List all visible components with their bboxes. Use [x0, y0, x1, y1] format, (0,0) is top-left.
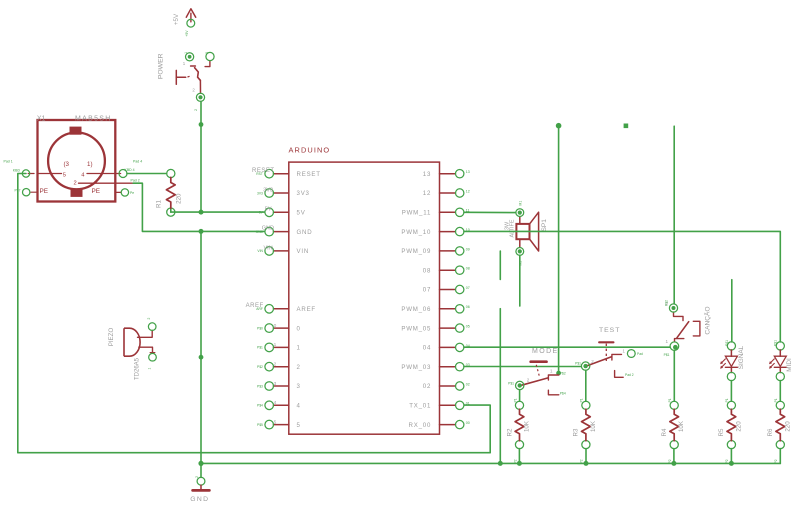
- arduino left pin AREF: [265, 305, 289, 314]
- wire net to MODE contact (vertical x=558): [558, 128, 560, 372]
- arduino left pin 3: [265, 382, 289, 391]
- svg-text:+5V: +5V: [185, 30, 189, 37]
- resistor R1 220: [166, 169, 175, 216]
- svg-text:RX_00: RX_00: [409, 422, 432, 429]
- svg-text:(3: (3: [64, 161, 70, 168]
- resistor R5 220: [727, 401, 736, 449]
- arduino left pin 1: [265, 343, 289, 352]
- wire dangling to SIGNAL LED: [731, 280, 733, 342]
- arduino right pin PWM_10: [440, 227, 464, 235]
- arduino left pin 0: [265, 324, 289, 333]
- svg-text:01: 01: [466, 402, 470, 406]
- svg-text:3: 3: [274, 381, 277, 387]
- svg-text:Pad 1: Pad 1: [4, 159, 13, 163]
- wire PWM_11 to speaker pin1: [464, 211, 516, 213]
- arduino right pin TX_01: [440, 401, 464, 409]
- arduino right pin 02: [440, 382, 464, 390]
- pin 2 of CANCAO: [669, 304, 677, 312]
- svg-text:KBD 4: KBD 4: [125, 168, 135, 172]
- svg-text:13: 13: [466, 170, 470, 174]
- svg-text:220: 220: [176, 193, 183, 204]
- junction x=558 at MODE contact: [556, 371, 561, 376]
- svg-text:GND: GND: [256, 230, 264, 234]
- svg-text:0: 0: [297, 325, 301, 332]
- svg-text:P1: P1: [580, 398, 584, 402]
- svg-text:13: 13: [423, 171, 431, 178]
- svg-text:2: 2: [147, 318, 151, 320]
- svg-text:12: 12: [466, 189, 470, 193]
- pin 1 of SP1: [516, 209, 524, 217]
- svg-text:12: 12: [423, 190, 431, 197]
- switch CANCAO: [674, 312, 700, 342]
- wire R4 bottom to bus: [673, 449, 675, 464]
- svg-text:R4: R4: [661, 428, 668, 436]
- svg-text:P$0: P$0: [257, 326, 263, 330]
- svg-text:RESET: RESET: [297, 171, 321, 178]
- wire PWM_03 to TEST pin: [464, 366, 581, 368]
- svg-text:P$1: P$1: [774, 340, 778, 346]
- svg-text:Pad 2: Pad 2: [131, 179, 140, 183]
- wire speaker pin2 dangling: [519, 255, 521, 306]
- arduino left pin RESET: [265, 169, 289, 178]
- svg-text:2: 2: [74, 181, 77, 187]
- junction GND bus R2: [517, 461, 522, 466]
- arduino left pin 2: [265, 362, 289, 371]
- junction GND net: [199, 355, 204, 360]
- svg-text:2: 2: [195, 476, 199, 478]
- junction GND bus x=500: [498, 461, 503, 466]
- svg-text:1: 1: [665, 339, 668, 344]
- wire PWM_10 to MIDI LED (long): [464, 231, 780, 342]
- svg-text:PWM_03: PWM_03: [401, 364, 431, 371]
- arduino right pin 13: [440, 170, 464, 178]
- junction GND net at power line: [199, 229, 204, 234]
- junction GND bus R5: [729, 461, 734, 466]
- svg-text:3W: 3W: [504, 221, 510, 230]
- wire MODE pin to R2: [519, 390, 521, 402]
- svg-text:10K: 10K: [590, 420, 597, 432]
- wire MIDI pin2 to arduino GND (GND net): [133, 183, 264, 231]
- svg-text:GND: GND: [190, 496, 209, 503]
- svg-text:+5V: +5V: [173, 13, 180, 25]
- wire 04 to CANCAO pin1: [464, 346, 670, 348]
- svg-text:P$4: P$4: [257, 404, 263, 408]
- svg-text:P$2: P$2: [665, 300, 669, 306]
- LED MIDI: [769, 342, 786, 381]
- svg-text:1: 1: [623, 348, 626, 353]
- svg-text:02: 02: [466, 382, 470, 386]
- svg-text:10K: 10K: [678, 420, 685, 432]
- svg-text:07: 07: [423, 287, 431, 294]
- svg-text:PWM_10: PWM_10: [401, 229, 431, 236]
- svg-text:P1: P1: [668, 398, 672, 402]
- svg-text:5V: 5V: [265, 206, 272, 212]
- arduino right pin PWM_03: [440, 363, 464, 371]
- svg-text:GND: GND: [262, 226, 274, 232]
- svg-text:R3: R3: [573, 428, 580, 436]
- svg-text:P1: P1: [513, 398, 517, 402]
- svg-text:PE: PE: [40, 188, 49, 195]
- pin 2 of POWER: [196, 93, 204, 101]
- resistor R2 10K: [515, 401, 524, 449]
- arduino left pin GND: [265, 227, 289, 236]
- svg-text:3V3: 3V3: [257, 191, 263, 195]
- svg-text:3: 3: [205, 52, 209, 54]
- resistor R6 220: [776, 401, 785, 449]
- svg-text:P$1: P$1: [508, 381, 514, 385]
- svg-text:SP1: SP1: [541, 219, 548, 232]
- junction GND bus R4: [671, 461, 676, 466]
- svg-text:1: 1: [297, 345, 301, 352]
- arduino module: [289, 162, 440, 434]
- svg-text:PWM_05: PWM_05: [401, 325, 431, 332]
- arduino left pin 5V: [265, 208, 289, 217]
- svg-text:ALTIFE: ALTIFE: [510, 219, 516, 237]
- svg-text:PIEZO: PIEZO: [108, 328, 115, 347]
- svg-text:1: 1: [550, 369, 553, 374]
- pin 2 of piezo: [148, 323, 156, 331]
- junction CANCAO pin1: [673, 345, 678, 350]
- svg-text:MODE: MODE: [532, 348, 559, 355]
- pin 2 of SP1: [516, 248, 524, 256]
- pin 1 of CANCAO: [670, 342, 679, 351]
- svg-text:3V3: 3V3: [297, 190, 310, 197]
- svg-text:TD26A5: TD26A5: [135, 357, 141, 380]
- svg-text:P$4: P$4: [560, 392, 566, 396]
- svg-text:07: 07: [466, 286, 470, 290]
- wire MIDI LED to R6: [779, 381, 781, 402]
- svg-text:P$1: P$1: [257, 346, 263, 350]
- pin 1 of POWER: [186, 53, 194, 61]
- junction GND bus R3: [584, 461, 589, 466]
- arduino left pin VIN: [265, 247, 289, 256]
- svg-text:SIGNAL: SIGNAL: [738, 345, 745, 369]
- svg-text:2: 2: [274, 362, 277, 368]
- svg-text:VIN: VIN: [297, 248, 310, 255]
- svg-text:Pad: Pad: [637, 352, 643, 356]
- svg-text:MAB5SH: MAB5SH: [75, 116, 112, 123]
- svg-text:P$2: P$2: [257, 365, 263, 369]
- arduino right pin 08: [440, 266, 464, 274]
- speaker SP1: [516, 212, 538, 251]
- ground GND: [193, 477, 210, 490]
- wire dangling vertical x=500 upper: [499, 251, 501, 279]
- svg-text:3: 3: [297, 383, 301, 390]
- arduino left pin 3V3: [265, 189, 289, 198]
- arduino left pin 5: [265, 420, 289, 429]
- pushbutton MODE: [522, 362, 559, 395]
- svg-text:08: 08: [466, 267, 470, 271]
- arduino right pin 04: [440, 343, 464, 351]
- svg-text:2: 2: [194, 109, 198, 111]
- svg-text:1: 1: [183, 61, 186, 66]
- svg-text:P1: P1: [774, 398, 778, 402]
- pin circle +5V: [187, 19, 195, 27]
- resistor R4 10K: [670, 401, 679, 449]
- junction top of x=558: [556, 123, 562, 129]
- wire vertical x=500 lower to GND bus: [499, 309, 501, 464]
- svg-text:P$1: P$1: [725, 340, 729, 346]
- svg-text:PWM_06: PWM_06: [401, 306, 431, 313]
- svg-text:0: 0: [274, 323, 277, 329]
- svg-text:R6: R6: [767, 428, 774, 436]
- arduino right pin PWM_06: [440, 305, 464, 313]
- wire 5V rail R1 to arduino 5V: [170, 208, 172, 212]
- pin circle X1 pin 4: [119, 170, 127, 178]
- svg-text:2: 2: [297, 364, 301, 371]
- svg-text:Pad 2: Pad 2: [625, 373, 634, 377]
- svg-text:09: 09: [466, 247, 470, 251]
- pin 1 of piezo: [149, 353, 157, 361]
- svg-text:TX_01: TX_01: [409, 403, 431, 410]
- wire net to CANCAO pin2 (vertical x=674): [673, 126, 675, 304]
- svg-text:VIN: VIN: [264, 246, 273, 252]
- arduino right pin PWM_11: [440, 208, 464, 216]
- arduino right pin 07: [440, 285, 464, 293]
- junction 5V rail at power line: [199, 210, 204, 215]
- svg-text:5: 5: [63, 172, 66, 178]
- svg-text:P1: P1: [725, 398, 729, 402]
- svg-text:5: 5: [274, 419, 277, 425]
- svg-text:POWER: POWER: [157, 53, 164, 79]
- wire SIGNAL LED to R5: [730, 381, 732, 402]
- junction on +5V net: [199, 122, 204, 127]
- svg-text:04: 04: [423, 345, 431, 352]
- svg-text:5V: 5V: [297, 210, 306, 217]
- arduino left pin 4: [265, 401, 289, 410]
- arduino right pin 12: [440, 189, 464, 197]
- svg-text:P$1: P$1: [664, 353, 670, 357]
- svg-text:X1: X1: [37, 116, 46, 123]
- svg-text:220: 220: [735, 421, 742, 432]
- svg-text:P$1: P$1: [575, 361, 581, 365]
- svg-text:Pad 4: Pad 4: [133, 159, 142, 163]
- svg-text:5: 5: [297, 422, 301, 429]
- svg-text:R5: R5: [718, 428, 725, 436]
- svg-text:Pe: Pe: [130, 191, 134, 195]
- svg-text:PWM_11: PWM_11: [402, 210, 431, 217]
- wire +5V net from POWER pin 2 down to 5V rail: [200, 101, 202, 212]
- LED SIGNAL: [720, 342, 737, 381]
- svg-text:220: 220: [784, 421, 791, 432]
- wire MIDI pin4 to R1 top: [127, 173, 167, 175]
- svg-text:ARF: ARF: [256, 307, 263, 311]
- svg-text:1: 1: [274, 342, 277, 348]
- wire R3 bottom to bus: [585, 449, 587, 464]
- svg-text:R1: R1: [156, 199, 163, 207]
- svg-text:MIDI: MIDI: [786, 358, 793, 372]
- svg-text:1: 1: [184, 52, 188, 54]
- svg-text:P$5: P$5: [257, 423, 263, 427]
- svg-text:1: 1: [147, 368, 151, 370]
- junction GND net at bus: [198, 461, 203, 466]
- svg-text:2: 2: [591, 359, 594, 364]
- wire R2 bottom to bus: [518, 449, 520, 464]
- svg-text:M1: M1: [519, 201, 523, 206]
- svg-text:3V3: 3V3: [263, 187, 273, 193]
- connector X1 MAB5SH: [38, 120, 116, 202]
- arduino right pin PWM_09: [440, 247, 464, 255]
- resistor R3 10K: [582, 401, 591, 449]
- wire GND bus: [201, 462, 780, 464]
- svg-text:P$3: P$3: [257, 384, 263, 388]
- svg-text:P$2: P$2: [560, 372, 566, 376]
- svg-text:4: 4: [81, 172, 85, 178]
- pin 1 of MODE: [516, 381, 524, 389]
- switch POWER: [176, 61, 210, 93]
- pin 3 of POWER: [206, 52, 214, 60]
- pin 2 of TEST open circle: [627, 350, 635, 358]
- pin circle X1 pin 5: [22, 170, 29, 177]
- wire TEST pin to R3: [585, 370, 587, 401]
- svg-text:PE: PE: [92, 188, 101, 195]
- svg-text:2: 2: [527, 378, 530, 383]
- svg-text:VIN: VIN: [257, 249, 263, 253]
- wire CANCAO pin1 to R4: [673, 351, 675, 402]
- svg-text:08: 08: [423, 267, 431, 274]
- svg-text:CANÇÃO: CANÇÃO: [703, 306, 712, 334]
- piezo TD26A5: [124, 328, 155, 356]
- wire R5 bottom to bus: [730, 449, 732, 464]
- svg-text:AREF: AREF: [297, 306, 316, 313]
- arduino right pin RX_00: [440, 420, 464, 428]
- svg-text:GND: GND: [297, 229, 313, 236]
- svg-text:ARDUINO: ARDUINO: [289, 146, 331, 155]
- svg-text:TEST: TEST: [599, 327, 620, 334]
- svg-text:PWM_09: PWM_09: [401, 248, 431, 255]
- svg-text:2: 2: [192, 87, 195, 92]
- svg-text:4: 4: [297, 403, 301, 410]
- svg-text:00: 00: [466, 421, 470, 425]
- pushbutton TEST: [587, 342, 623, 377]
- wire MIDI pin5 to TX_01 (KBD net): [18, 174, 490, 453]
- svg-text:RST: RST: [256, 172, 263, 176]
- svg-text:10K: 10K: [524, 420, 531, 432]
- wire R6 bottom to bus corner: [779, 449, 781, 464]
- svg-text:02: 02: [423, 383, 431, 390]
- arduino right pin PWM_05: [440, 324, 464, 332]
- svg-text:05: 05: [466, 325, 470, 329]
- junction isolated square dot: [624, 124, 629, 129]
- svg-text:R2: R2: [506, 428, 513, 436]
- svg-text:1): 1): [87, 161, 93, 168]
- pin 1 of TEST: [581, 362, 589, 370]
- wire GND net vertical: [200, 231, 202, 477]
- svg-text:06: 06: [466, 305, 470, 309]
- power symbol +5V: [186, 9, 195, 22]
- svg-text:4: 4: [274, 400, 277, 406]
- svg-text:KBD: KBD: [13, 168, 21, 172]
